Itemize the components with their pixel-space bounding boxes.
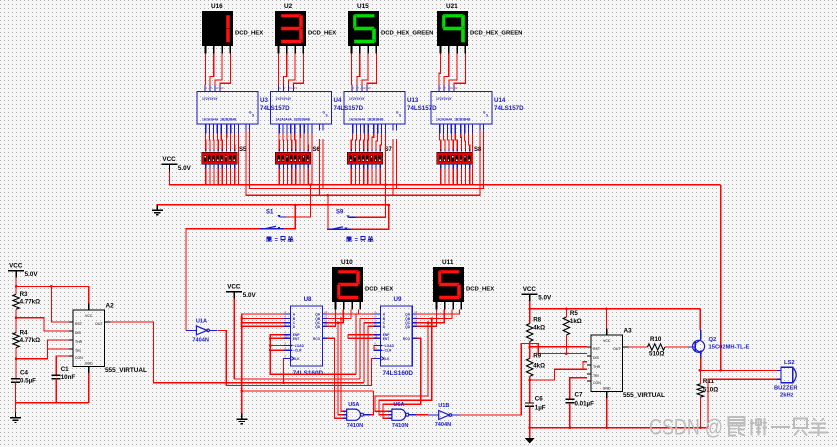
- svg-text:DCD_HEX: DCD_HEX: [235, 31, 263, 37]
- wire C6 to bottom rail: [529, 406, 531, 438]
- svg-text:DCD_HEX_GREEN: DCD_HEX_GREEN: [381, 31, 433, 37]
- wire U8 C preset: [242, 322, 284, 324]
- wires U16 to U3: [206, 54, 231, 86]
- svg-text:U1B: U1B: [438, 403, 449, 409]
- wire R5 to DIS: [566, 335, 587, 354]
- multiplexer U14 74LS157D: [431, 85, 492, 134]
- wire U8 RCO down to U5A input 3: [327, 338, 343, 418]
- wires U2 to U4: [279, 54, 304, 86]
- svg-text:4.77kΩ: 4.77kΩ: [20, 299, 40, 306]
- wire buzzer lower pin line: [708, 379, 777, 427]
- wire U8 LOAD CLR stubs: [270, 345, 283, 347]
- svg-text:RCO: RCO: [403, 337, 411, 341]
- svg-text:1µF: 1µF: [535, 405, 546, 412]
- wire A3 VCC drop: [605, 309, 607, 329]
- svg-text:R5: R5: [570, 310, 578, 317]
- svg-text:VCC: VCC: [227, 283, 241, 290]
- svg-text:U5A: U5A: [348, 402, 359, 408]
- svg-text:1Y2Y3Y4Y: 1Y2Y3Y4Y: [202, 97, 218, 101]
- wire sub-bus A tap U4: [322, 139, 324, 189]
- svg-text:S: S: [326, 114, 328, 118]
- svg-text:QD: QD: [315, 325, 321, 329]
- wires U13 to S7 bottom to bus: [351, 164, 380, 185]
- 7-segment display U16 (digit 1): [202, 11, 233, 46]
- wire U8 B preset: [242, 318, 284, 320]
- svg-text:0.5µF: 0.5µF: [20, 377, 36, 384]
- wire sub-bus A y=188.5: [250, 131, 484, 189]
- multiplexer U3 74LS157D: [197, 85, 258, 134]
- svg-text:7404N: 7404N: [435, 422, 451, 428]
- U10 pins: [336, 302, 361, 310]
- svg-text:~CLR: ~CLR: [383, 349, 392, 353]
- svg-text:CON: CON: [75, 356, 83, 360]
- wire U8 ENP feed / band line y=374.3: [270, 335, 356, 375]
- svg-text:R3: R3: [20, 291, 28, 298]
- wire CON to C1: [56, 356, 69, 375]
- resistor R10 510: [648, 336, 665, 357]
- wire rail R3-R4: [15, 309, 17, 332]
- wires U4 to S6 bottom to bus: [279, 164, 308, 185]
- wires U9 outputs to U11: [412, 310, 459, 327]
- wire RST tie to VCC line: [51, 286, 69, 322]
- svg-text:R10: R10: [650, 336, 662, 343]
- wire Q2 emitter down: [700, 358, 702, 370]
- wire U9 C input: [364, 323, 381, 383]
- wire U5A output up to band: [371, 391, 374, 415]
- wires U3 to S5: [206, 134, 235, 152]
- svg-text:DCD_HEX: DCD_HEX: [466, 287, 494, 293]
- wire TRI branch: [530, 369, 587, 380]
- svg-text:7410N: 7410N: [392, 423, 408, 429]
- power VCC (A2 section): [8, 262, 38, 278]
- wire U6A output to U1B: [416, 414, 428, 416]
- ground (A2 section): [10, 412, 21, 422]
- multiplexer U13 74LS157D: [344, 85, 405, 134]
- svg-text:A3: A3: [624, 328, 633, 335]
- wire C7 to bottom rail: [569, 403, 571, 428]
- DIP switch S7: [347, 152, 383, 165]
- wire U8 RCO stub: [322, 337, 327, 339]
- wires U14 to S8: [440, 134, 470, 152]
- wires U4 to S6: [279, 134, 308, 152]
- svg-text:1Y2Y3Y4Y: 1Y2Y3Y4Y: [349, 97, 365, 101]
- svg-text:74LS157D: 74LS157D: [334, 105, 364, 112]
- counter U8 74LS160D: [290, 306, 322, 366]
- wires U15 to U13: [352, 54, 377, 86]
- svg-text:1Y2Y3Y4Y: 1Y2Y3Y4Y: [276, 97, 292, 101]
- wire THR/TRI to rail: [16, 349, 47, 359]
- wire sub-bus B tap U13: [392, 139, 394, 195]
- switch S1: [260, 215, 287, 229]
- svg-text:C4: C4: [20, 369, 28, 376]
- svg-text:U6A: U6A: [393, 402, 404, 408]
- wire U9 RCO stub: [412, 337, 416, 339]
- svg-text:CSDN @: CSDN @: [649, 415, 723, 440]
- 7-segment display U10 (digit 2): [332, 267, 363, 302]
- svg-text:GND: GND: [85, 362, 93, 366]
- svg-text:GND: GND: [603, 387, 611, 391]
- svg-text:VCC: VCC: [162, 156, 176, 163]
- svg-text:R4: R4: [20, 330, 28, 337]
- wire band line y=378.9: [234, 378, 360, 380]
- svg-text:7410N: 7410N: [347, 423, 363, 429]
- capacitor C6 1uF: [525, 396, 546, 412]
- capacitor C4 0.5uF: [11, 369, 36, 384]
- svg-text:0.01µF: 0.01µF: [575, 401, 595, 408]
- wire U9 ENP ENT stubs: [348, 334, 381, 336]
- resistor R11 510: [697, 378, 718, 397]
- svg-text:S1: S1: [266, 210, 274, 216]
- svg-text:DIS: DIS: [75, 331, 82, 335]
- wire mux 9th pin drops to bus: [238, 134, 240, 185]
- power VCC (A3 section): [522, 286, 552, 302]
- inverter U1A 7404N: [186, 326, 218, 335]
- wires U13 to S7: [351, 134, 381, 152]
- wire U9 QB branch down to U6A input 2: [379, 319, 432, 415]
- U21 pins: [441, 46, 466, 54]
- resistor R4 4.77k: [13, 330, 40, 348]
- power VCC (top rail): [161, 156, 191, 172]
- wire U9 D input: [368, 326, 381, 385]
- wire sub-bus A tap U13: [396, 139, 398, 189]
- svg-text:RST: RST: [75, 322, 83, 326]
- wire rail R9 to C6: [529, 376, 531, 403]
- svg-text:ENT: ENT: [293, 337, 300, 341]
- wire U9 B input: [360, 319, 381, 379]
- svg-text:5.0V: 5.0V: [25, 271, 39, 278]
- multiplexer U4 74LS157D: [271, 85, 332, 134]
- wire R10 to Q2 base: [665, 346, 688, 348]
- svg-text:U21: U21: [446, 3, 458, 10]
- wire VCC branch to A2 VCC pin: [16, 286, 89, 303]
- svg-text:A2: A2: [106, 303, 115, 310]
- svg-text:74LS157D: 74LS157D: [260, 105, 290, 112]
- DIP switch S5: [201, 152, 237, 165]
- svg-text:1kΩ: 1kΩ: [570, 318, 582, 325]
- svg-text:VCC: VCC: [523, 286, 537, 293]
- wire VCC2 down: [233, 299, 235, 379]
- ground (A3 section): [525, 438, 535, 444]
- wire U8 ENT stub: [270, 337, 283, 339]
- power VCC (counter section): [226, 283, 256, 299]
- wire band line y=385.6 to U9 CLK: [226, 358, 380, 385]
- svg-text:QD: QD: [405, 325, 411, 329]
- svg-text:THR: THR: [75, 340, 83, 344]
- watermark CSDN: [649, 415, 828, 440]
- svg-text:Q2: Q2: [709, 337, 717, 343]
- wire S9 pole up: [327, 195, 329, 229]
- wire S1 pole to U1A: [186, 229, 260, 331]
- wire bottom rail right section: [530, 427, 708, 429]
- buzzer LS2: [777, 367, 796, 383]
- svg-text:5.0V: 5.0V: [178, 165, 192, 172]
- NAND gate U6A 7410N: [388, 409, 416, 420]
- svg-text:U16: U16: [211, 3, 223, 10]
- wire S1 upper throw up: [286, 185, 311, 217]
- wire C1 bottom to gnd rail: [55, 379, 57, 403]
- svg-text:RST: RST: [593, 347, 601, 351]
- svg-text:S: S: [399, 114, 401, 118]
- resistor R9 4k: [527, 353, 546, 377]
- svg-text:4.77kΩ: 4.77kΩ: [20, 337, 40, 344]
- 7-segment display U11 (digit 5): [433, 267, 464, 302]
- resistor R5 1k: [563, 310, 582, 335]
- svg-text:U9: U9: [394, 296, 402, 303]
- svg-text:VCC: VCC: [603, 339, 611, 343]
- svg-text:5.0V: 5.0V: [243, 292, 257, 299]
- svg-text:74LS160D: 74LS160D: [293, 370, 324, 377]
- svg-text:RCO: RCO: [313, 337, 321, 341]
- wire sub-bus B tap U4: [319, 139, 321, 195]
- svg-text:OUT: OUT: [95, 322, 103, 326]
- wire VCC top to main bus: [169, 171, 720, 185]
- wire VCC3 rail junction: [528, 308, 531, 311]
- svg-text:U1A: U1A: [196, 318, 207, 324]
- wire CON to C7: [570, 378, 587, 400]
- U11 pins: [437, 302, 462, 310]
- svg-text:74LS160D: 74LS160D: [383, 370, 414, 377]
- svg-text:C7: C7: [575, 392, 583, 399]
- svg-text:2kHz: 2kHz: [780, 393, 794, 399]
- 7-segment display U15 (digit 5): [348, 11, 379, 46]
- wire main bus right drop: [720, 185, 722, 371]
- timer A2 555_VIRTUAL: [69, 304, 111, 374]
- svg-text:C6: C6: [535, 396, 543, 403]
- wire U1B output to A3 section: [460, 343, 567, 415]
- svg-text:1A2A3A4A 1B2B3B4B: 1A2A3A4A 1B2B3B4B: [436, 118, 471, 122]
- svg-text:U8: U8: [304, 296, 312, 303]
- label key=space S1: [266, 236, 293, 243]
- timer A3 555_VIRTUAL: [587, 329, 629, 399]
- wire A2 VCC red top: [88, 286, 90, 303]
- wires U21 to U14: [439, 54, 465, 86]
- svg-text:S: S: [486, 114, 488, 118]
- svg-text:~LOAD: ~LOAD: [383, 344, 395, 348]
- wires U14 to S8 bottom to bus: [441, 164, 470, 185]
- svg-text:U10: U10: [341, 259, 353, 266]
- wire branch up to U8 CLK: [284, 358, 291, 382]
- wire VCC3 down: [529, 301, 531, 323]
- svg-text:1A2A3A4A 1B2B3B4B: 1A2A3A4A 1B2B3B4B: [349, 118, 384, 122]
- wire RST line A3: [530, 346, 587, 348]
- svg-text:5.0V: 5.0V: [538, 295, 552, 302]
- svg-text:OUT: OUT: [613, 347, 621, 351]
- svg-text:74LS157D: 74LS157D: [407, 105, 437, 112]
- svg-text:U13: U13: [407, 97, 419, 104]
- label key=space S9: [346, 236, 373, 243]
- wire gnd rail y=402.8: [16, 402, 89, 404]
- NAND gate U5A 7410N: [343, 409, 371, 420]
- 7-segment display U21 (digit 9): [437, 11, 468, 46]
- svg-text:R8: R8: [533, 317, 541, 324]
- svg-text:THR: THR: [593, 365, 601, 369]
- ground (switch section): [152, 205, 163, 215]
- wire A2 GND down: [88, 373, 90, 403]
- svg-text:QA: QA: [405, 313, 411, 317]
- svg-text:DCD_HEX: DCD_HEX: [365, 287, 393, 293]
- svg-text:=: =: [355, 238, 359, 244]
- svg-text:C1: C1: [61, 366, 69, 373]
- switch S9: [327, 216, 356, 230]
- U8 pin stubs: [284, 310, 327, 358]
- wire S1 lower throw to ground line: [284, 205, 295, 229]
- svg-text:555_VIRTUAL: 555_VIRTUAL: [105, 367, 147, 374]
- 7-segment display U2 (digit 3): [275, 11, 306, 46]
- wire U8 preset tie-down rail: [242, 314, 284, 414]
- svg-text:LS2: LS2: [784, 360, 795, 366]
- svg-text:1Y2Y3Y4Y: 1Y2Y3Y4Y: [436, 97, 452, 101]
- svg-text:ENT: ENT: [383, 337, 390, 341]
- U15 pins: [352, 46, 377, 54]
- svg-text:~CLR: ~CLR: [293, 349, 302, 353]
- DIP switch S8: [436, 152, 472, 165]
- svg-text:VCC: VCC: [85, 314, 93, 318]
- wire rail R8 to R9: [529, 342, 531, 359]
- wire U9 LOAD CLR stubs: [374, 345, 381, 347]
- wire Q2 collector up: [699, 309, 701, 330]
- ground (counter section): [236, 414, 247, 424]
- svg-text:U14: U14: [494, 97, 506, 104]
- svg-text:QA: QA: [315, 313, 321, 317]
- svg-text:DIS: DIS: [593, 356, 600, 360]
- svg-text:S9: S9: [336, 210, 344, 216]
- svg-text:4kΩ: 4kΩ: [533, 363, 545, 370]
- wire A3 OUT to R10: [629, 346, 648, 348]
- inverter U1B 7404N: [428, 411, 460, 420]
- wire THR TRI tie A3: [583, 362, 587, 370]
- wire rail C4 to ground: [15, 382, 17, 412]
- wire node to R11: [699, 370, 701, 383]
- wire sub-bus B y=195.3: [246, 131, 480, 196]
- svg-text:R9: R9: [533, 353, 541, 360]
- wire ground line y=204.8: [157, 205, 388, 211]
- wire A2 OUT line y=382.7: [111, 322, 365, 383]
- wire S9 upper throw to U13 pin: [356, 134, 386, 218]
- svg-text:10nF: 10nF: [61, 374, 76, 381]
- transistor Q2 15C02MH-TL-E: [688, 330, 705, 358]
- svg-text:U15: U15: [357, 3, 369, 10]
- wire U1A output down to band: [218, 330, 226, 385]
- svg-text:1A2A3A4A 1B2B3B4B: 1A2A3A4A 1B2B3B4B: [202, 118, 237, 122]
- svg-text:CON: CON: [593, 381, 601, 385]
- svg-text:TRI: TRI: [593, 374, 599, 378]
- wires U3 to S5 bottom to bus: [206, 164, 235, 185]
- resistor R8 4k: [527, 317, 546, 342]
- wire U9 RCO down to U6A input 3: [383, 338, 421, 418]
- svg-text:4kΩ: 4kΩ: [533, 325, 545, 332]
- svg-text:74LS157D: 74LS157D: [494, 105, 524, 112]
- U9 pin stubs: [374, 310, 417, 358]
- wire R5 top stub: [565, 309, 567, 317]
- svg-text:7404N: 7404N: [192, 337, 208, 343]
- DIP switch S6: [275, 152, 311, 165]
- wire U9 QC branch down to U6A input 1: [375, 323, 428, 412]
- svg-text:U3: U3: [260, 97, 268, 104]
- wire S9 lower throw right and up: [351, 205, 389, 229]
- svg-text:S8: S8: [474, 147, 482, 153]
- wire U9 A input: [356, 314, 381, 374]
- svg-text:510Ω: 510Ω: [703, 387, 718, 394]
- wire U8 QB branch down to U5A input 1: [341, 319, 343, 412]
- U2 pins: [279, 46, 304, 54]
- svg-text:U11: U11: [442, 259, 454, 266]
- svg-text:1A2A3A4A 1B2B3B4B: 1A2A3A4A 1B2B3B4B: [276, 118, 311, 122]
- wire VCC3 distribution line: [530, 308, 701, 310]
- wire DIS from R3/R4 junction: [16, 318, 69, 331]
- wire left rail top: [15, 278, 17, 295]
- capacitor C1 10nF: [52, 366, 76, 381]
- wire THR TRI tie: [47, 340, 69, 349]
- wire A3 GND down: [606, 398, 608, 428]
- wire U8 QC branch down to U5A input 2: [338, 323, 343, 415]
- svg-text:=: =: [275, 238, 279, 244]
- svg-text:DCD_HEX_GREEN: DCD_HEX_GREEN: [470, 31, 522, 37]
- svg-text:VCC: VCC: [9, 262, 23, 269]
- counter U9 74LS160D: [380, 306, 412, 366]
- svg-text:BUZZER: BUZZER: [774, 386, 798, 392]
- svg-text:TRI: TRI: [75, 349, 81, 353]
- capacitor C7 0.01uF: [565, 392, 594, 408]
- wire band line y=390.9: [242, 390, 374, 392]
- svg-text:510Ω: 510Ω: [649, 351, 664, 358]
- svg-text:U2: U2: [284, 3, 293, 10]
- svg-text:U4: U4: [334, 97, 342, 104]
- svg-text:15C02MH-TL-E: 15C02MH-TL-E: [709, 345, 750, 351]
- svg-text:555_VIRTUAL: 555_VIRTUAL: [623, 392, 665, 399]
- resistor R3 4.77k: [13, 291, 40, 309]
- wires U8 outputs to U10: [322, 310, 358, 327]
- wire U8 D preset: [242, 325, 284, 327]
- wire rail R4-C4: [15, 348, 17, 379]
- svg-text:~LOAD: ~LOAD: [293, 344, 305, 348]
- wire R11 to bottom rail: [699, 397, 701, 428]
- wire emitter node to buzzer: [701, 369, 777, 371]
- svg-text:DCD_HEX: DCD_HEX: [308, 31, 336, 37]
- U16 pins: [206, 46, 231, 54]
- svg-text:S: S: [252, 114, 254, 118]
